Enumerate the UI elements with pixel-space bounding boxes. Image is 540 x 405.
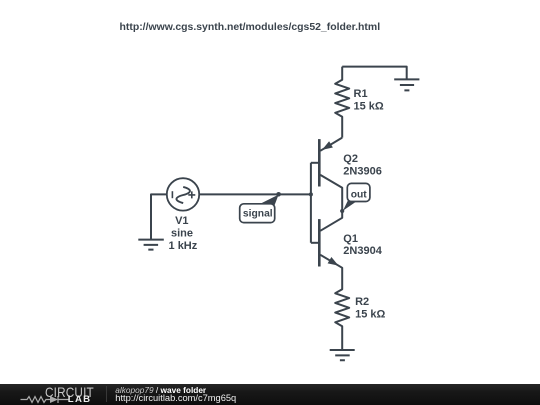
svg-text:out: out: [351, 189, 368, 200]
svg-text:15 kΩ: 15 kΩ: [355, 308, 385, 320]
svg-text:Q2: Q2: [343, 153, 358, 165]
svg-text:R1: R1: [354, 88, 368, 100]
svg-text:R2: R2: [355, 296, 369, 308]
svg-text:15 kΩ: 15 kΩ: [354, 101, 384, 113]
svg-text:2N3906: 2N3906: [343, 165, 382, 177]
svg-text:Q1: Q1: [343, 233, 358, 245]
svg-text:1 kHz: 1 kHz: [169, 240, 198, 252]
svg-text:http://www.cgs.synth.net/modul: http://www.cgs.synth.net/modules/cgs52_f…: [120, 22, 381, 33]
svg-text:V1: V1: [175, 215, 188, 227]
svg-text:sine: sine: [171, 227, 193, 239]
svg-text:2N3904: 2N3904: [343, 245, 382, 257]
svg-text:signal: signal: [243, 209, 273, 220]
